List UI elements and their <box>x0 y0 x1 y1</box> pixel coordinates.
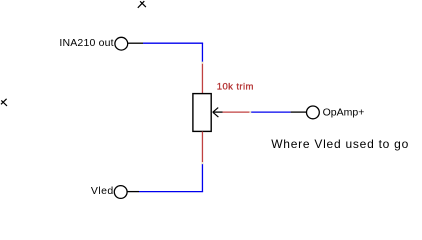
svg-text:Where Vled used to go: Where Vled used to go <box>271 137 409 151</box>
wiper pin stub (black) <box>213 111 223 113</box>
port terminal circle (Vled) <box>114 186 127 199</box>
port label INA210 out <box>59 37 113 49</box>
wire (top vertical, blue) <box>201 43 203 62</box>
svg-text:OpAmp+: OpAmp+ <box>323 107 365 119</box>
wiper pin (red) <box>223 111 250 113</box>
pin (INA210 out port to wire) <box>128 42 143 44</box>
svg-text:10k trim: 10k trim <box>217 81 254 92</box>
pin (Vled port to wire, black) <box>127 191 139 193</box>
off-page arrow (top edge, clipped) <box>138 1 146 8</box>
wire (wiper to OpAmp+, blue) <box>251 111 290 113</box>
svg-text:Vled: Vled <box>91 185 114 197</box>
port label Vled <box>91 185 114 197</box>
port terminal circle (OpAmp+) <box>307 106 320 119</box>
potentiometer bottom pin (red) <box>201 132 203 163</box>
wire (top horizontal, blue) <box>143 42 203 44</box>
off-page arrow (left edge, clipped) <box>1 99 7 106</box>
annotation: Where Vled used to go <box>271 137 409 151</box>
port terminal circle (INA210 out) <box>115 37 128 50</box>
wire (bottom horizontal, blue) <box>139 191 203 193</box>
svg-text:INA210 out: INA210 out <box>59 37 113 49</box>
wire (bottom vertical, blue) <box>201 162 203 192</box>
potentiometer body R1 <box>193 94 211 132</box>
pin (wire to OpAmp+ port, black) <box>291 111 307 113</box>
port label OpAmp+ <box>323 107 365 119</box>
junction dot (red/blue transition) <box>249 111 251 113</box>
potentiometer top pin (red) <box>201 62 203 94</box>
wiper arrow (black arrowhead) <box>213 108 219 118</box>
value label 10k trim <box>217 81 254 92</box>
